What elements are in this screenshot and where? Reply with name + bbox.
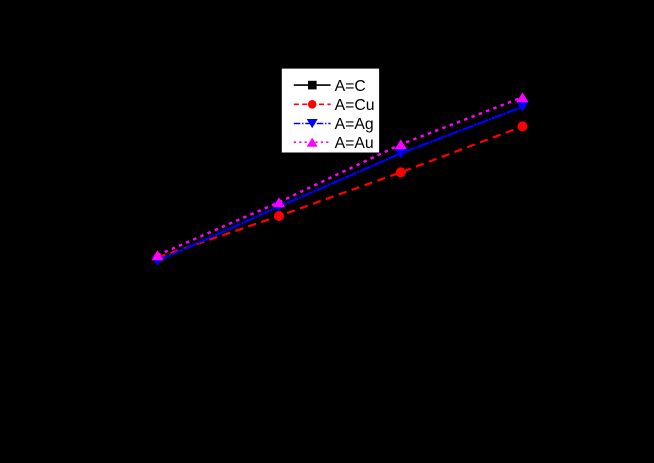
svg-text:A=Cu: A=Cu [335, 97, 375, 114]
svg-text:A=C: A=C [335, 78, 366, 95]
svg-text:A=Au: A=Au [335, 135, 374, 152]
svg-text:A=Ag: A=Ag [335, 116, 374, 133]
